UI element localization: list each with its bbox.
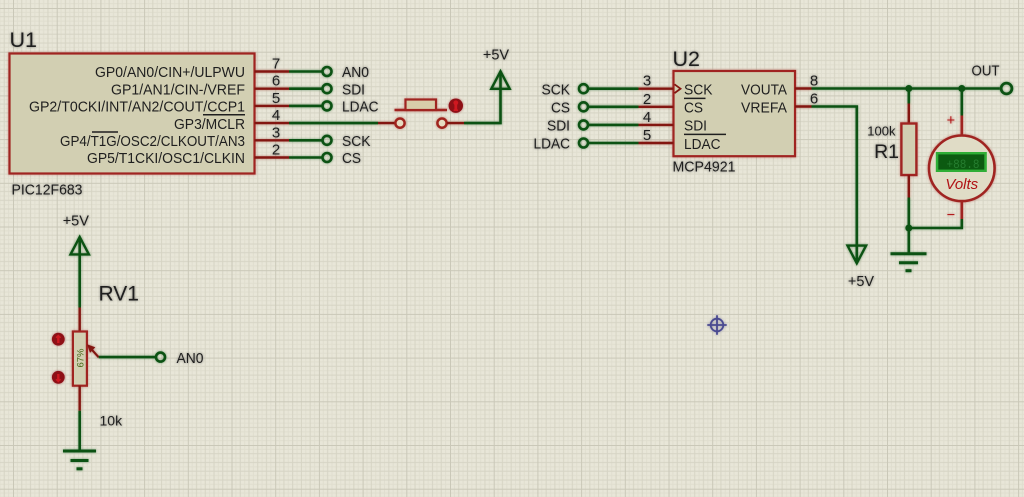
U1 pin 2 stub — [255, 156, 290, 158]
power +5V arrow (RV1) — [71, 237, 89, 255]
U1 pin 7 stub — [255, 70, 290, 72]
terminal SCK (left of U2) — [579, 84, 588, 93]
power +5V arrow (down, VREFA) — [848, 246, 867, 264]
wire CS — [589, 106, 639, 109]
power +5V arrow (button) — [491, 71, 509, 89]
wire pin7 to AN0 — [289, 70, 323, 73]
push button right terminal — [437, 119, 446, 128]
svg-text:6: 6 — [810, 91, 818, 108]
junction node R1 top — [905, 85, 912, 92]
svg-text:2: 2 — [272, 142, 280, 159]
svg-text:VOUTA: VOUTA — [741, 82, 787, 99]
overline T1G — [92, 131, 118, 133]
svg-text:3: 3 — [272, 124, 280, 141]
ground (RV1) — [63, 450, 96, 453]
svg-text:+5V: +5V — [483, 48, 510, 64]
button left pin stub — [378, 122, 395, 124]
svg-text:SCK: SCK — [542, 81, 571, 98]
svg-text:SDI: SDI — [684, 118, 707, 135]
chip U1 body — [10, 54, 255, 174]
voltmeter top pin stub — [960, 116, 963, 137]
junction node ground — [905, 225, 912, 232]
wire junction to ground — [907, 228, 910, 253]
terminal SCK — [323, 136, 332, 145]
U2 pin 2 stub — [639, 106, 674, 108]
svg-text:100k: 100k — [867, 123, 896, 138]
U2 pin 5 stub — [639, 142, 674, 144]
U1 pin 3 stub — [255, 139, 290, 141]
svg-text:3: 3 — [643, 73, 651, 90]
svg-text:4: 4 — [643, 109, 651, 126]
wire RV1 to ground — [78, 411, 81, 450]
svg-text:GP5/T1CKI/OSC1/CLKIN: GP5/T1CKI/OSC1/CLKIN — [87, 150, 245, 167]
wire wiper to AN0 — [99, 356, 156, 359]
terminal AN0 — [323, 67, 332, 76]
svg-text:5: 5 — [272, 90, 280, 107]
overline CS — [684, 97, 706, 99]
svg-text:4: 4 — [272, 107, 280, 124]
RV1 bottom pin stub — [78, 386, 80, 411]
wire junction to voltmeter — [960, 89, 963, 116]
wire pin5 to LDAC — [289, 105, 323, 108]
svg-text:+5V: +5V — [63, 213, 90, 229]
svg-text:GP2/T0CKI/INT/AN2/COUT/CCP1: GP2/T0CKI/INT/AN2/COUT/CCP1 — [29, 99, 245, 116]
ground (meter) — [891, 252, 927, 255]
wire button to +5V — [464, 73, 501, 123]
svg-text:GP4/T1G/OSC2/CLKOUT/AN3: GP4/T1G/OSC2/CLKOUT/AN3 — [60, 133, 245, 150]
svg-text:CS: CS — [342, 150, 361, 167]
wire VREFA to +5V — [812, 107, 857, 263]
terminal AN0 (RV1) — [156, 353, 165, 362]
RV1 wiper arrow — [92, 349, 99, 357]
U2 pin 4 stub — [639, 124, 674, 126]
svg-text:SDI: SDI — [547, 118, 570, 135]
U2 pin 6 stub (VREFA) — [795, 105, 812, 107]
svg-text:R1: R1 — [874, 141, 899, 163]
svg-text:CS: CS — [551, 100, 570, 117]
voltmeter bottom pin stub — [960, 201, 963, 219]
wire VOUTA to OUT — [812, 87, 1000, 90]
svg-text:SCK: SCK — [684, 82, 713, 99]
svg-text:SDI: SDI — [342, 81, 365, 98]
RV1 decrement marker — [52, 371, 65, 384]
terminal OUT — [1001, 83, 1012, 94]
R1 top pin stub — [908, 104, 910, 124]
terminal SDI — [323, 84, 332, 93]
svg-text:LDAC: LDAC — [342, 99, 379, 116]
junction node voltmeter top — [958, 85, 965, 92]
U1 pin 4 stub — [255, 122, 290, 124]
R1 bottom pin stub — [908, 175, 910, 198]
U2 pin 8 stub (VOUTA) — [795, 87, 812, 89]
wire LDAC — [589, 142, 639, 145]
svg-text:67%: 67% — [75, 348, 86, 368]
RV1 increment marker — [52, 333, 65, 346]
svg-text:6: 6 — [272, 73, 280, 90]
svg-text:LDAC: LDAC — [684, 136, 721, 153]
svg-text:MCP4921: MCP4921 — [673, 159, 736, 176]
potentiometer RV1 body — [73, 332, 87, 386]
svg-text:8: 8 — [810, 73, 818, 90]
button actuator marker — [449, 99, 463, 113]
terminal CS — [323, 153, 332, 162]
push button cap — [406, 100, 437, 111]
svg-text:GP1/AN1/CIN-/VREF: GP1/AN1/CIN-/VREF — [111, 81, 245, 98]
terminal SDI (left of U2) — [579, 120, 588, 129]
svg-text:SCK: SCK — [342, 133, 371, 150]
U2 pin 3 stub — [639, 87, 674, 89]
chip U2 body — [674, 71, 796, 156]
svg-text:PIC12F683: PIC12F683 — [12, 182, 83, 199]
wire pin4 to button — [289, 122, 378, 125]
svg-text:GP3/MCLR: GP3/MCLR — [174, 116, 245, 133]
svg-text:AN0: AN0 — [177, 350, 204, 367]
svg-text:U1: U1 — [10, 28, 37, 52]
wire pin3 to SCK — [289, 139, 323, 142]
svg-text:+: + — [947, 113, 955, 129]
origin marker — [707, 315, 726, 334]
terminal LDAC — [323, 101, 332, 110]
terminal CS (left of U2) — [579, 102, 588, 111]
svg-text:−: − — [947, 208, 955, 224]
wire R1 bottom to junction — [907, 198, 910, 229]
wire +5V to RV1 — [78, 238, 81, 308]
svg-text:RV1: RV1 — [99, 283, 139, 306]
U1 pin 6 stub — [255, 87, 290, 89]
wire voltmeter bottom to ground junction — [909, 219, 962, 228]
U1 pin 5 stub — [255, 105, 290, 107]
resistor R1 body — [901, 124, 916, 176]
svg-text:10k: 10k — [100, 413, 124, 429]
push button left terminal — [395, 119, 404, 128]
wire pin2 to CS — [289, 156, 323, 159]
RV1 top pin stub — [78, 308, 80, 332]
wire to R1 top — [907, 89, 910, 104]
svg-text:+88.8: +88.8 — [947, 157, 980, 172]
button right pin stub / wire — [447, 122, 464, 124]
overline LDAC — [684, 133, 726, 135]
voltmeter LCD — [936, 152, 987, 172]
svg-text:LDAC: LDAC — [534, 136, 571, 153]
svg-text:U2: U2 — [673, 47, 700, 71]
svg-text:7: 7 — [272, 56, 280, 73]
svg-text:GP0/AN0/CIN+/ULPWU: GP0/AN0/CIN+/ULPWU — [95, 64, 245, 81]
overline MCLR — [203, 114, 245, 116]
svg-text:OUT: OUT — [972, 63, 1000, 80]
push button plate bar — [395, 109, 448, 112]
clock mark pin SCK — [675, 84, 681, 93]
svg-text:VREFA: VREFA — [741, 100, 787, 117]
svg-text:+5V: +5V — [848, 274, 875, 290]
wire SDI — [589, 124, 639, 127]
svg-text:2: 2 — [643, 91, 651, 108]
voltmeter body — [929, 136, 995, 202]
svg-text:AN0: AN0 — [342, 64, 369, 81]
wire SCK — [589, 87, 639, 90]
wire pin6 to SDI — [289, 87, 323, 90]
terminal LDAC (left of U2) — [579, 139, 588, 148]
svg-text:CS: CS — [684, 100, 703, 117]
svg-text:5: 5 — [643, 127, 651, 144]
svg-text:Volts: Volts — [945, 176, 978, 193]
